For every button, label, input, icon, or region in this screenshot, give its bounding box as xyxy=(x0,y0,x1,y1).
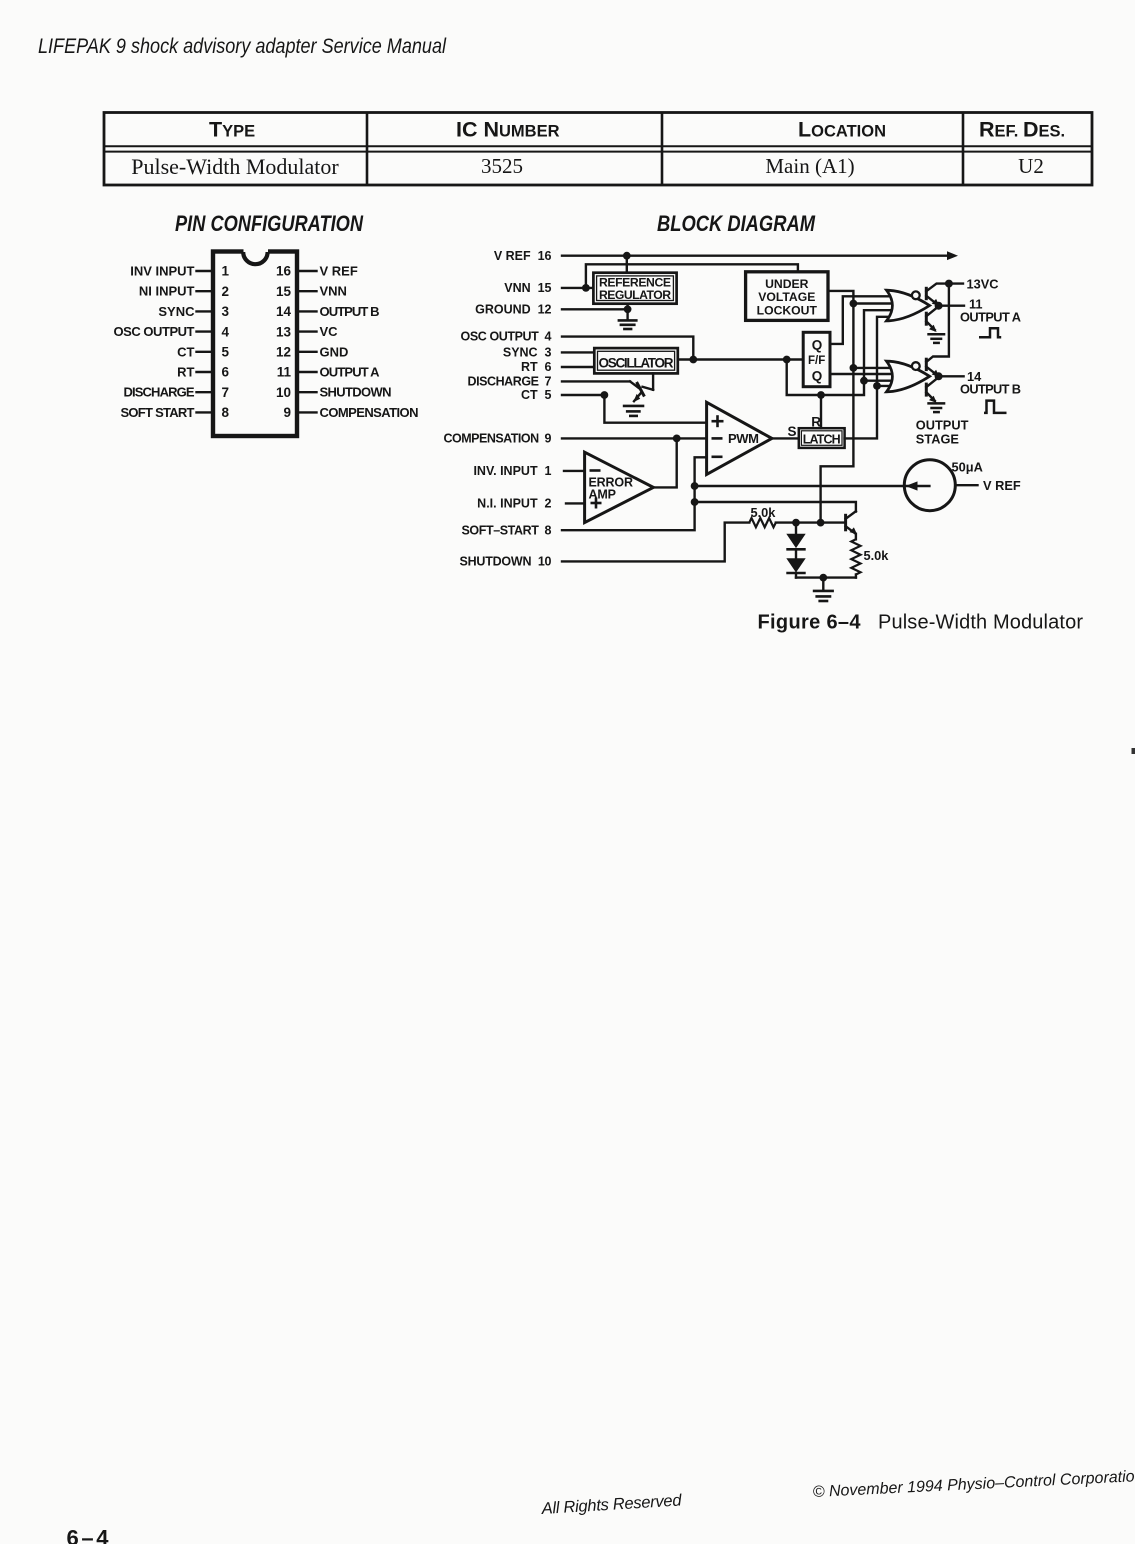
gate: OR gate A (NOR, output stage A) xyxy=(887,290,930,321)
wire: output A stub xyxy=(939,305,964,307)
wire: VNN 15 input xyxy=(562,287,593,289)
svg-text:9: 9 xyxy=(283,405,291,420)
wire: SOFT-START 8 up to PWM lower input xyxy=(562,457,707,530)
svg-text:10: 10 xyxy=(276,385,291,400)
svg-text:LOCATION: LOCATION xyxy=(798,118,886,142)
transistor Q-clamp xyxy=(846,511,856,533)
svg-text:Main (A1): Main (A1) xyxy=(765,154,854,178)
svg-text:13VC: 13VC xyxy=(967,276,999,291)
resistor R 5.0k (horizontal) xyxy=(749,518,776,527)
pin 11 stub xyxy=(297,371,317,373)
svg-text:OUTPUT B: OUTPUT B xyxy=(960,382,1021,397)
table header double separator xyxy=(104,145,1092,147)
svg-text:CT 5: CT 5 xyxy=(521,388,552,402)
waveform: output A pulse xyxy=(979,328,1001,337)
pin 15 stub xyxy=(297,290,317,292)
node: 13VC junction xyxy=(945,280,953,288)
gate: OR gate B (NOR, output stage B) xyxy=(887,361,930,392)
svg-text:2: 2 xyxy=(222,284,230,299)
transistor Q-discharge xyxy=(630,373,653,401)
wire: diodes to bottom rail xyxy=(795,573,797,578)
block U: UNDER VOLTAGE LOCKOUT xyxy=(746,272,828,321)
svg-text:PWM: PWM xyxy=(728,431,759,446)
pin 10 stub xyxy=(297,391,317,393)
node: latch bus to OR gate B junction xyxy=(873,382,881,390)
svg-text:VC: VC xyxy=(320,324,339,339)
wire: PWM output to latch S input xyxy=(772,437,799,439)
wire: UV bus stub into OR gate B xyxy=(853,367,895,369)
svg-text:All Rights Reserved: All Rights Reserved xyxy=(540,1491,683,1518)
transistor QA-bottom (output A totem bottom) xyxy=(926,307,938,330)
pin numbers 16-9 xyxy=(276,264,292,420)
wire: soft-start net to 50uA current source xyxy=(695,485,930,487)
wire: CT 5 input xyxy=(562,394,604,396)
right pin labels xyxy=(320,264,419,420)
ground symbol (discharge transistor) xyxy=(623,406,645,416)
svg-text:UNDER: UNDER xyxy=(765,277,809,291)
pin 14 stub xyxy=(297,310,317,312)
svg-text:GND: GND xyxy=(320,344,349,359)
left pin labels xyxy=(114,264,196,420)
wire: output B stub xyxy=(939,375,964,377)
current source I1 50uA xyxy=(904,460,955,511)
node: diode string junction xyxy=(792,519,800,527)
IC U2 package body (16-pin DIP) xyxy=(213,249,297,437)
svg-text:OSC OUTPUT: OSC OUTPUT xyxy=(114,324,195,339)
svg-text:AMP: AMP xyxy=(589,488,617,502)
svg-text:Figure 6–4: Figure 6–4 xyxy=(758,612,862,634)
node: V REF to reference regulator junction xyxy=(623,252,631,260)
block diagram left pin labels xyxy=(444,249,552,569)
wire: F/F Qbar to OR gate B input 2 xyxy=(830,373,895,375)
svg-text:GROUND 12: GROUND 12 xyxy=(475,302,551,316)
svg-text:S: S xyxy=(788,424,797,439)
node: UV bus to base junction xyxy=(817,519,825,527)
wire: SHUTDOWN 10 to 5.0k resistor xyxy=(562,523,749,562)
wire: VNN feed up and over to under-voltage lockout xyxy=(586,264,798,288)
pin 9 stub xyxy=(297,411,317,413)
pin 3 stub xyxy=(197,310,214,312)
svg-text:5.0k: 5.0k xyxy=(864,548,890,563)
svg-text:DISCHARGE 7: DISCHARGE 7 xyxy=(468,375,552,389)
wire: 13VC stub xyxy=(949,282,963,284)
op-amp PWM comparator xyxy=(707,402,772,474)
block: OSCILLATOR xyxy=(594,348,678,373)
pin 4 stub xyxy=(197,330,214,332)
svg-text:RT 6: RT 6 xyxy=(521,360,552,374)
svg-text:VNN: VNN xyxy=(320,284,347,299)
diode D2 xyxy=(795,549,797,558)
svg-text:OUTPUT A: OUTPUT A xyxy=(960,309,1021,324)
svg-text:1: 1 xyxy=(222,264,230,279)
inverter bubble gate B xyxy=(912,362,920,370)
wire: latch R input from blanking net xyxy=(820,395,822,428)
svg-text:COMPENSATION: COMPENSATION xyxy=(320,405,419,420)
pin numbers 1-8 xyxy=(222,264,230,420)
svg-text:5: 5 xyxy=(222,345,230,360)
svg-text:Pulse-Width Modulator: Pulse-Width Modulator xyxy=(878,612,1083,634)
wire: RT 6 input xyxy=(562,366,594,368)
block: LATCH xyxy=(799,428,845,448)
svg-text:8: 8 xyxy=(222,405,230,420)
table column separator 3 xyxy=(962,113,965,186)
svg-text:7: 7 xyxy=(222,385,230,400)
svg-text:SYNC: SYNC xyxy=(158,304,195,319)
node: blanking branch xyxy=(783,356,791,364)
svg-text:VOLTAGE: VOLTAGE xyxy=(758,290,815,304)
svg-text:DISCHARGE: DISCHARGE xyxy=(124,385,195,400)
svg-text:SHUTDOWN: SHUTDOWN xyxy=(320,385,392,400)
node: ground junction under reference regulator xyxy=(624,305,632,313)
svg-text:U2: U2 xyxy=(1018,154,1044,178)
svg-text:REF. DES.: REF. DES. xyxy=(979,118,1065,142)
svg-text:SYNC 3: SYNC 3 xyxy=(503,346,552,360)
node: soft-start branch to clamp transistor xyxy=(691,498,699,506)
svg-text:OUTPUT B: OUTPUT B xyxy=(320,304,380,319)
svg-text:NI INPUT: NI INPUT xyxy=(139,284,195,299)
transistor QA-top (output A totem top) xyxy=(926,284,949,305)
svg-text:© November 1994 Physio–Control: © November 1994 Physio–Control Corporati… xyxy=(812,1468,1135,1501)
svg-text:Q: Q xyxy=(812,338,823,353)
node: CT branch xyxy=(601,391,609,399)
wire: under-voltage lockout / latch output bus xyxy=(821,291,854,523)
wire: V REF 16 rail with arrow xyxy=(562,254,950,256)
svg-text:LOCKOUT: LOCKOUT xyxy=(757,304,818,318)
wire: latch bus stub into OR gate B xyxy=(877,385,895,387)
node: VNN branch junction xyxy=(582,284,590,292)
svg-text:CT: CT xyxy=(177,344,194,359)
wire: COMPENSATION 9 to PWM - input xyxy=(562,437,707,439)
svg-text:REGULATOR: REGULATOR xyxy=(599,288,671,302)
node: UV bus to OR gate A junction xyxy=(850,300,858,308)
wire: UV bus stub into OR gate A xyxy=(853,302,895,304)
svg-text:OUTPUT A: OUTPUT A xyxy=(320,365,381,380)
svg-text:PIN CONFIGURATION: PIN CONFIGURATION xyxy=(175,211,364,236)
wire: resistor down to bottom rail xyxy=(855,575,857,578)
svg-text:OSCILLATOR: OSCILLATOR xyxy=(599,356,674,371)
table column separator 2 xyxy=(661,113,664,186)
wire: reference regulator to ground xyxy=(626,304,628,319)
svg-text:14: 14 xyxy=(276,304,292,319)
svg-text:3525: 3525 xyxy=(481,154,523,178)
waveform: output B pulse xyxy=(984,401,1007,413)
wire: blanking net (osc output down, along, to OR gates bus) xyxy=(787,310,895,395)
svg-text:BLOCK DIAGRAM: BLOCK DIAGRAM xyxy=(657,211,816,236)
transistor QB-top (output B totem top) xyxy=(926,359,937,375)
pin 8 stub xyxy=(197,411,214,413)
wire: oscillator output to flip-flop xyxy=(678,358,803,360)
pin 16 stub xyxy=(297,270,317,272)
svg-text:SOFT START: SOFT START xyxy=(121,405,195,420)
node: output A node xyxy=(935,302,943,310)
pin 5 stub xyxy=(197,351,214,353)
svg-text:13: 13 xyxy=(276,324,292,339)
wire: CT to PWM + input xyxy=(604,395,706,423)
svg-text:3: 3 xyxy=(222,304,230,319)
svg-text:TYPE: TYPE xyxy=(209,118,255,142)
node: output B node xyxy=(935,372,943,380)
pin 6 stub xyxy=(197,371,214,373)
pin 13 stub xyxy=(297,330,317,332)
node: osc output branch xyxy=(689,356,697,364)
transistor QB-bottom (output B totem bottom) xyxy=(926,378,938,401)
node: bottom rail ground junction xyxy=(819,574,827,582)
wire: F/F Q up to OR gate A input 1 xyxy=(830,296,895,344)
svg-text:Pulse-Width Modulator: Pulse-Width Modulator xyxy=(131,154,339,179)
svg-text:F/F: F/F xyxy=(808,355,825,367)
ground symbol (reference regulator) xyxy=(618,320,638,329)
svg-text:16: 16 xyxy=(276,264,292,279)
ground symbol (output stage A) xyxy=(927,334,945,343)
node: compensation / error amp junction xyxy=(673,435,681,443)
block: F/F flip-flop xyxy=(803,332,830,386)
wire: 13VC rail down to transistor QB-top xyxy=(926,284,949,362)
wire: SYNC 3 input xyxy=(562,351,594,353)
svg-text:INV. INPUT 1: INV. INPUT 1 xyxy=(473,464,551,478)
svg-text:OUTPUT: OUTPUT xyxy=(916,417,969,432)
wire: error amp output up to compensation net xyxy=(653,438,676,487)
svg-text:V REF: V REF xyxy=(983,478,1021,493)
table IC summary: outer frame xyxy=(104,113,1092,186)
svg-text:50μA: 50μA xyxy=(952,460,983,475)
node: soft-start branch to current source xyxy=(691,482,699,490)
svg-text:IC NUMBER: IC NUMBER xyxy=(456,118,560,142)
op-amp ERROR AMP xyxy=(585,452,654,522)
svg-text:11: 11 xyxy=(277,365,292,380)
wire: blanking bus stub into OR gate B xyxy=(864,380,895,382)
svg-text:COMPENSATION 9: COMPENSATION 9 xyxy=(444,432,552,446)
svg-text:4: 4 xyxy=(222,324,230,339)
pin 2 stub xyxy=(197,290,214,292)
svg-text:VNN 15: VNN 15 xyxy=(504,281,551,295)
svg-text:15: 15 xyxy=(276,284,292,299)
diode D1 xyxy=(795,523,797,534)
inverter bubble gate A xyxy=(912,291,920,299)
ground symbol (bottom rail) xyxy=(813,591,834,601)
scan mark right edge xyxy=(1132,748,1135,754)
wire: INV. INPUT 1 xyxy=(564,470,585,472)
svg-text:LATCH: LATCH xyxy=(803,433,841,447)
svg-text:LIFEPAK 9 shock advisory adapt: LIFEPAK 9 shock advisory adapter Service… xyxy=(38,35,447,58)
svg-text:OSC OUTPUT 4: OSC OUTPUT 4 xyxy=(461,330,552,344)
IC top notch xyxy=(243,252,267,264)
pin 1 stub xyxy=(197,270,214,272)
wire: bottom rail xyxy=(796,576,856,578)
node: UV bus to OR gate B junction xyxy=(850,364,858,372)
svg-text:5.0k: 5.0k xyxy=(751,505,777,520)
svg-text:12: 12 xyxy=(276,345,291,360)
ground symbol (output stage B) xyxy=(927,403,945,412)
pin 12 stub xyxy=(297,351,317,353)
wire: latch output up to OR gates (input 4) xyxy=(845,317,895,439)
svg-text:INV INPUT: INV INPUT xyxy=(130,264,194,279)
wire: DISCHARGE 7 input xyxy=(562,380,630,382)
svg-text:6–4: 6–4 xyxy=(67,1526,110,1544)
wire: bottom rail to ground xyxy=(822,578,824,590)
svg-text:SHUTDOWN 10: SHUTDOWN 10 xyxy=(460,555,552,569)
pin 7 stub xyxy=(197,391,214,393)
svg-text:V REF: V REF xyxy=(320,264,358,279)
svg-text:N.I. INPUT 2: N.I. INPUT 2 xyxy=(477,497,551,511)
svg-text:Q: Q xyxy=(812,369,823,384)
svg-text:STAGE: STAGE xyxy=(916,432,960,447)
wire: resistor to transistor base xyxy=(776,521,845,523)
wire: current source to V REF xyxy=(955,484,977,486)
wire: N.I. INPUT 2 xyxy=(566,502,585,504)
wire: emitter to 5.0k resistor xyxy=(855,534,857,540)
block U: REFERENCE REGULATOR xyxy=(593,273,676,304)
svg-text:6: 6 xyxy=(222,365,230,380)
wire: soft-start net to clamp transistor collector xyxy=(695,502,856,512)
wire: OSC OUTPUT 4 over to oscillator output net xyxy=(562,337,693,360)
svg-text:V REF 16: V REF 16 xyxy=(494,249,552,263)
svg-text:SOFT–START 8: SOFT–START 8 xyxy=(462,523,552,537)
wire: GROUND 12 input xyxy=(562,308,628,310)
node: blanking to latch R junction xyxy=(817,391,825,399)
svg-text:RT: RT xyxy=(177,365,194,380)
table column separator 1 xyxy=(366,113,369,186)
wire: junction down into reference regulator xyxy=(626,256,628,273)
resistor R 5.0k (vertical) xyxy=(851,539,860,574)
node: blanking to OR gate B junction xyxy=(860,377,868,385)
